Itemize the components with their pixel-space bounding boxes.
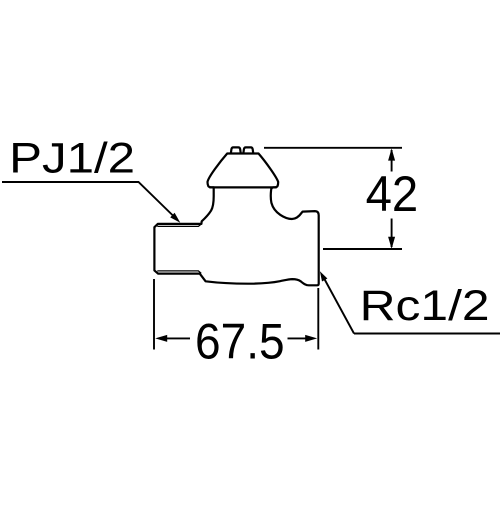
svg-text:Rc1/2: Rc1/2 xyxy=(360,282,490,330)
svg-text:67.5: 67.5 xyxy=(195,314,285,370)
svg-text:PJ1/2: PJ1/2 xyxy=(9,136,135,183)
svg-text:42: 42 xyxy=(366,166,419,222)
